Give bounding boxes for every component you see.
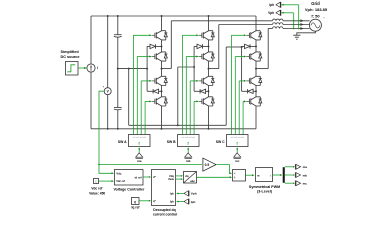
junction clamp column C neutral: [241, 46, 243, 48]
from tag mb: [185, 153, 192, 157]
clamp diode D5b: [194, 45, 197, 47]
phase C line to filter: [268, 28, 272, 30]
phase A mid node: [161, 68, 163, 70]
wire leg C axis segment 3: [255, 61, 257, 76]
constant block Iq ref: [132, 198, 140, 205]
svg-text:(3-Level): (3-Level): [257, 190, 273, 194]
svg-text:Symmetrical PWM: Symmetrical PWM: [249, 185, 280, 189]
IGBT with diode S3a: [155, 76, 168, 85]
junction Vph phase b: [293, 24, 295, 26]
wire leg C axis segment 2: [255, 40, 257, 52]
junction Vdc measurement: [98, 164, 100, 166]
from tag ma: [136, 153, 143, 157]
svg-text:Iph: Iph: [269, 3, 274, 7]
junction bottom rail leg A: [161, 128, 163, 130]
capacitor rail lower: [117, 110, 119, 129]
wire inductor L1 to grid: [283, 20, 310, 22]
gate driver block SW A: [129, 135, 151, 147]
goto tag mc: [294, 181, 296, 186]
neutral riser leg B: [177, 67, 179, 125]
wire demux out ma: [285, 166, 293, 168]
wire demux out mb: [285, 174, 293, 176]
wire divide to PWM: [246, 174, 254, 176]
constant block Vdc ref: [94, 179, 99, 184]
wire leg B axis segment 1: [208, 16, 210, 31]
junction Vph phase c: [293, 28, 295, 30]
svg-text:Vdc ref: Vdc ref: [91, 187, 103, 191]
gate wire S4a: [144, 101, 146, 134]
svg-text:0: 0: [134, 200, 136, 204]
svg-text:mb: mb: [186, 159, 191, 163]
svg-text:theta: theta: [168, 178, 174, 181]
junction Iph phase a: [298, 20, 300, 22]
svg-text:mc: mc: [235, 159, 240, 163]
svg-text:Iq ref: Iq ref: [131, 205, 140, 209]
demux: [283, 167, 285, 183]
phase C tap wire: [256, 68, 268, 70]
grid port arrow phase C: [300, 27, 303, 30]
wire gain to divide: [216, 165, 231, 174]
gate wire S3c: [238, 81, 240, 135]
svg-text:Vdc ref: Vdc ref: [116, 179, 125, 183]
wire abc to divide: [197, 176, 232, 178]
wire leg B axis segment 3: [208, 61, 210, 76]
svg-text:sw1 sw2 sw3 sw4: sw1 sw2 sw3 sw4: [181, 137, 194, 139]
grid port arrow phase A: [300, 19, 303, 22]
divide block: [233, 170, 246, 182]
IGBT with diode S2c: [249, 52, 262, 61]
IGBT with diode S2b: [202, 52, 215, 61]
phase A line to filter: [171, 20, 272, 22]
svg-text:Vdc: Vdc: [116, 171, 122, 175]
capacitor rail middle: [117, 37, 119, 107]
gate wire S3a: [140, 81, 142, 135]
svg-text:mb: mb: [303, 173, 308, 177]
neutral wire to leg B clamp column: [178, 66, 194, 68]
svg-text:Decoupled dq: Decoupled dq: [153, 208, 175, 212]
phase B riser wire: [218, 25, 220, 69]
junction clamp D6c axis: [255, 90, 257, 92]
IGBT with diode S4b: [202, 97, 215, 106]
wire Vdc to controller: [99, 165, 112, 174]
svg-text:Value: 450: Value: 450: [89, 192, 105, 196]
IGBT with diode S2a: [155, 52, 168, 61]
inductor L3: [273, 27, 284, 29]
svg-text:Vph: Vph: [268, 11, 274, 15]
wire leg A axis segment 4: [161, 86, 163, 97]
svg-text:Vph: Vph: [191, 192, 197, 196]
junction bottom rail voltmeter: [107, 128, 109, 130]
junction Iph phase c: [298, 28, 300, 30]
wire demux out mc: [285, 182, 293, 184]
svg-text:I: I: [97, 66, 98, 70]
Decoupled dq current control block: [152, 170, 176, 206]
neutral bus wire: [129, 124, 227, 126]
junction neutral drop: [128, 68, 130, 70]
phase A riser wire: [170, 21, 172, 69]
grid port arrow phase B: [300, 23, 303, 26]
Symmetrical PWM block: [256, 168, 273, 182]
IGBT with diode S3b: [202, 76, 215, 85]
svg-text:0.5: 0.5: [205, 163, 210, 167]
wire from tag mc to SW C: [236, 148, 238, 153]
capacitor C2: [114, 106, 122, 108]
controlled current source I1: [87, 64, 95, 72]
junction bottom rail leg B: [208, 128, 210, 130]
junction clamp column B neutral: [193, 66, 195, 68]
svg-text:DC source: DC source: [61, 55, 80, 59]
phase B mid node: [208, 68, 210, 70]
svg-text:Simplified: Simplified: [61, 50, 80, 54]
inductor L2: [273, 23, 284, 25]
grid voltage source: [309, 19, 321, 31]
wire left rail lower: [90, 72, 92, 129]
wire PWM to demux: [273, 174, 282, 176]
gate wire S1a: [132, 35, 134, 134]
junction neutral riser B: [177, 124, 179, 126]
junction clamp D5c axis: [255, 45, 257, 47]
wire DC+ top rail: [91, 15, 256, 17]
gate wire S3b: [189, 81, 191, 135]
svg-text:SW A: SW A: [118, 140, 127, 144]
gate wire S1b: [181, 35, 183, 134]
gate wire S4c: [242, 101, 244, 134]
wire voltmeter output: [99, 91, 104, 164]
voltmeter branch upper: [107, 16, 109, 88]
wire Iph to dq block: [178, 201, 184, 203]
neutral wire to leg C clamp column: [226, 46, 241, 48]
Iph measurement wire: [298, 5, 300, 29]
junction neutral capacitor rail: [117, 68, 119, 70]
junction bottom rail capacitor: [117, 128, 119, 130]
IGBT with diode S4a: [155, 97, 168, 106]
wire leg B axis segment 2: [208, 40, 210, 52]
svg-text:sw1 sw2 sw3 sw4: sw1 sw2 sw3 sw4: [230, 137, 243, 139]
from tag Iph2: [184, 199, 188, 204]
junction top rail leg B: [208, 15, 210, 17]
junction clamp D6a axis: [161, 90, 163, 92]
wire leg A axis segment 3: [161, 61, 163, 76]
gate driver block SW C: [227, 135, 249, 147]
wire from tag mb to SW B: [187, 148, 189, 153]
wire DC- bottom rail: [91, 128, 256, 130]
wire leg A axis segment 5: [161, 106, 163, 129]
clamp column leg C: [241, 46, 243, 91]
inductor L1: [273, 19, 284, 21]
phase A tap wire: [162, 68, 172, 70]
neutral riser leg C: [225, 47, 227, 125]
svg-text:ma: ma: [303, 165, 308, 169]
junction top rail capacitor: [117, 15, 119, 17]
junction Vph phase a: [293, 20, 295, 22]
junction clamp D6b axis: [208, 90, 210, 92]
phase C mid node: [255, 68, 257, 70]
voltmeter V1: [104, 88, 111, 95]
wire leg A axis segment 1: [161, 16, 163, 31]
wire inductor L3 to grid: [283, 28, 310, 30]
clamp diode D6c: [253, 90, 256, 92]
svg-text:current control: current control: [153, 212, 177, 216]
goto tag mb: [294, 172, 296, 177]
wire leg B axis segment 5: [208, 106, 210, 129]
svg-text:SW B: SW B: [167, 140, 176, 144]
wire inductor L2 to grid: [283, 24, 310, 26]
wire theta: [176, 178, 182, 180]
wire leg C axis segment 1: [255, 16, 257, 31]
svg-text:f: 50: f: 50: [311, 13, 320, 18]
wire id ref: [143, 176, 150, 178]
gate wire S2b: [185, 57, 187, 135]
IGBT with diode S4c: [249, 97, 262, 106]
svg-text:Iph: Iph: [191, 200, 196, 204]
wire leg C axis segment 5: [255, 106, 257, 129]
junction clamp D5b axis: [208, 45, 210, 47]
wire leg B axis segment 4: [208, 86, 210, 97]
phase C riser wire: [267, 29, 269, 69]
svg-text:abc: abc: [190, 179, 195, 183]
wire leg A axis segment 2: [161, 40, 163, 52]
junction top rail leg A: [161, 15, 163, 17]
goto tag ma: [294, 164, 296, 169]
phase B line to filter: [219, 24, 273, 26]
gate driver block SW B: [178, 135, 200, 147]
gate wire S1c: [230, 35, 232, 134]
wire Vdc to gain: [99, 164, 202, 166]
step source block: [66, 62, 79, 76]
voltmeter branch lower: [107, 95, 109, 129]
IGBT with diode S1b: [202, 31, 215, 40]
IGBT with diode S3c: [249, 76, 262, 85]
clamp diode D5c: [242, 45, 245, 47]
dq to abc transform block: [184, 172, 197, 184]
IGBT with diode S1c: [249, 31, 262, 40]
svg-text:dq: dq: [185, 174, 189, 178]
svg-text:Iph: Iph: [170, 192, 174, 196]
wire Iq ref: [139, 200, 150, 202]
capacitor rail upper: [117, 16, 119, 35]
phase B tap wire: [209, 68, 219, 70]
IGBT with diode S1a: [155, 31, 168, 40]
wire step to current source: [78, 67, 86, 69]
svg-text:C: C: [95, 180, 97, 183]
svg-text:Iph: Iph: [170, 200, 174, 204]
wire left rail upper: [90, 16, 92, 64]
ground: [293, 34, 300, 36]
svg-text:sw1 sw2 sw3 sw4: sw1 sw2 sw3 sw4: [132, 137, 145, 139]
gain block 0.5: [203, 158, 216, 171]
svg-text:ma: ma: [137, 159, 142, 163]
Voltage Controller block: [115, 170, 144, 186]
junction clamp D5a axis: [161, 45, 163, 47]
clamp diode D6b: [206, 90, 209, 92]
junction top rail voltmeter: [107, 15, 109, 17]
wire Vph tag: [284, 12, 294, 14]
from tag Vph: [184, 191, 188, 196]
wire Iph tag: [284, 4, 299, 6]
wire Vdc ref to controller: [99, 180, 113, 182]
svg-text:Vph: 183.85: Vph: 183.85: [305, 7, 328, 12]
svg-text:Grid: Grid: [311, 1, 320, 6]
svg-text:mc: mc: [303, 182, 308, 186]
clamp column leg A: [146, 46, 148, 91]
svg-text:Vdq: Vdq: [169, 174, 174, 178]
wire leg C axis segment 4: [255, 86, 257, 97]
svg-text:SW C: SW C: [216, 140, 225, 144]
wire from tag ma to SW A: [138, 148, 140, 153]
clamp diode D6a: [159, 90, 162, 92]
gate wire S2a: [136, 57, 138, 135]
Vph measurement wire: [293, 13, 295, 29]
grid neutral wire: [297, 31, 316, 35]
junction clamp column A neutral: [146, 68, 148, 70]
svg-text:id ref: id ref: [135, 175, 142, 179]
capacitor C1: [114, 34, 122, 36]
clamp column leg B: [193, 46, 195, 91]
clamp diode D5a: [147, 45, 150, 47]
gate wire S2c: [234, 57, 236, 135]
svg-text:Voltage Controller: Voltage Controller: [114, 188, 145, 192]
wire Vdq: [176, 175, 182, 177]
gate wire S4b: [193, 101, 195, 134]
neutral wire to leg A clamp column: [118, 68, 147, 70]
neutral drop wire: [128, 69, 130, 126]
junction Iph phase b: [298, 24, 300, 26]
wire Vph to dq block: [178, 192, 184, 194]
from tag mc: [234, 153, 241, 157]
